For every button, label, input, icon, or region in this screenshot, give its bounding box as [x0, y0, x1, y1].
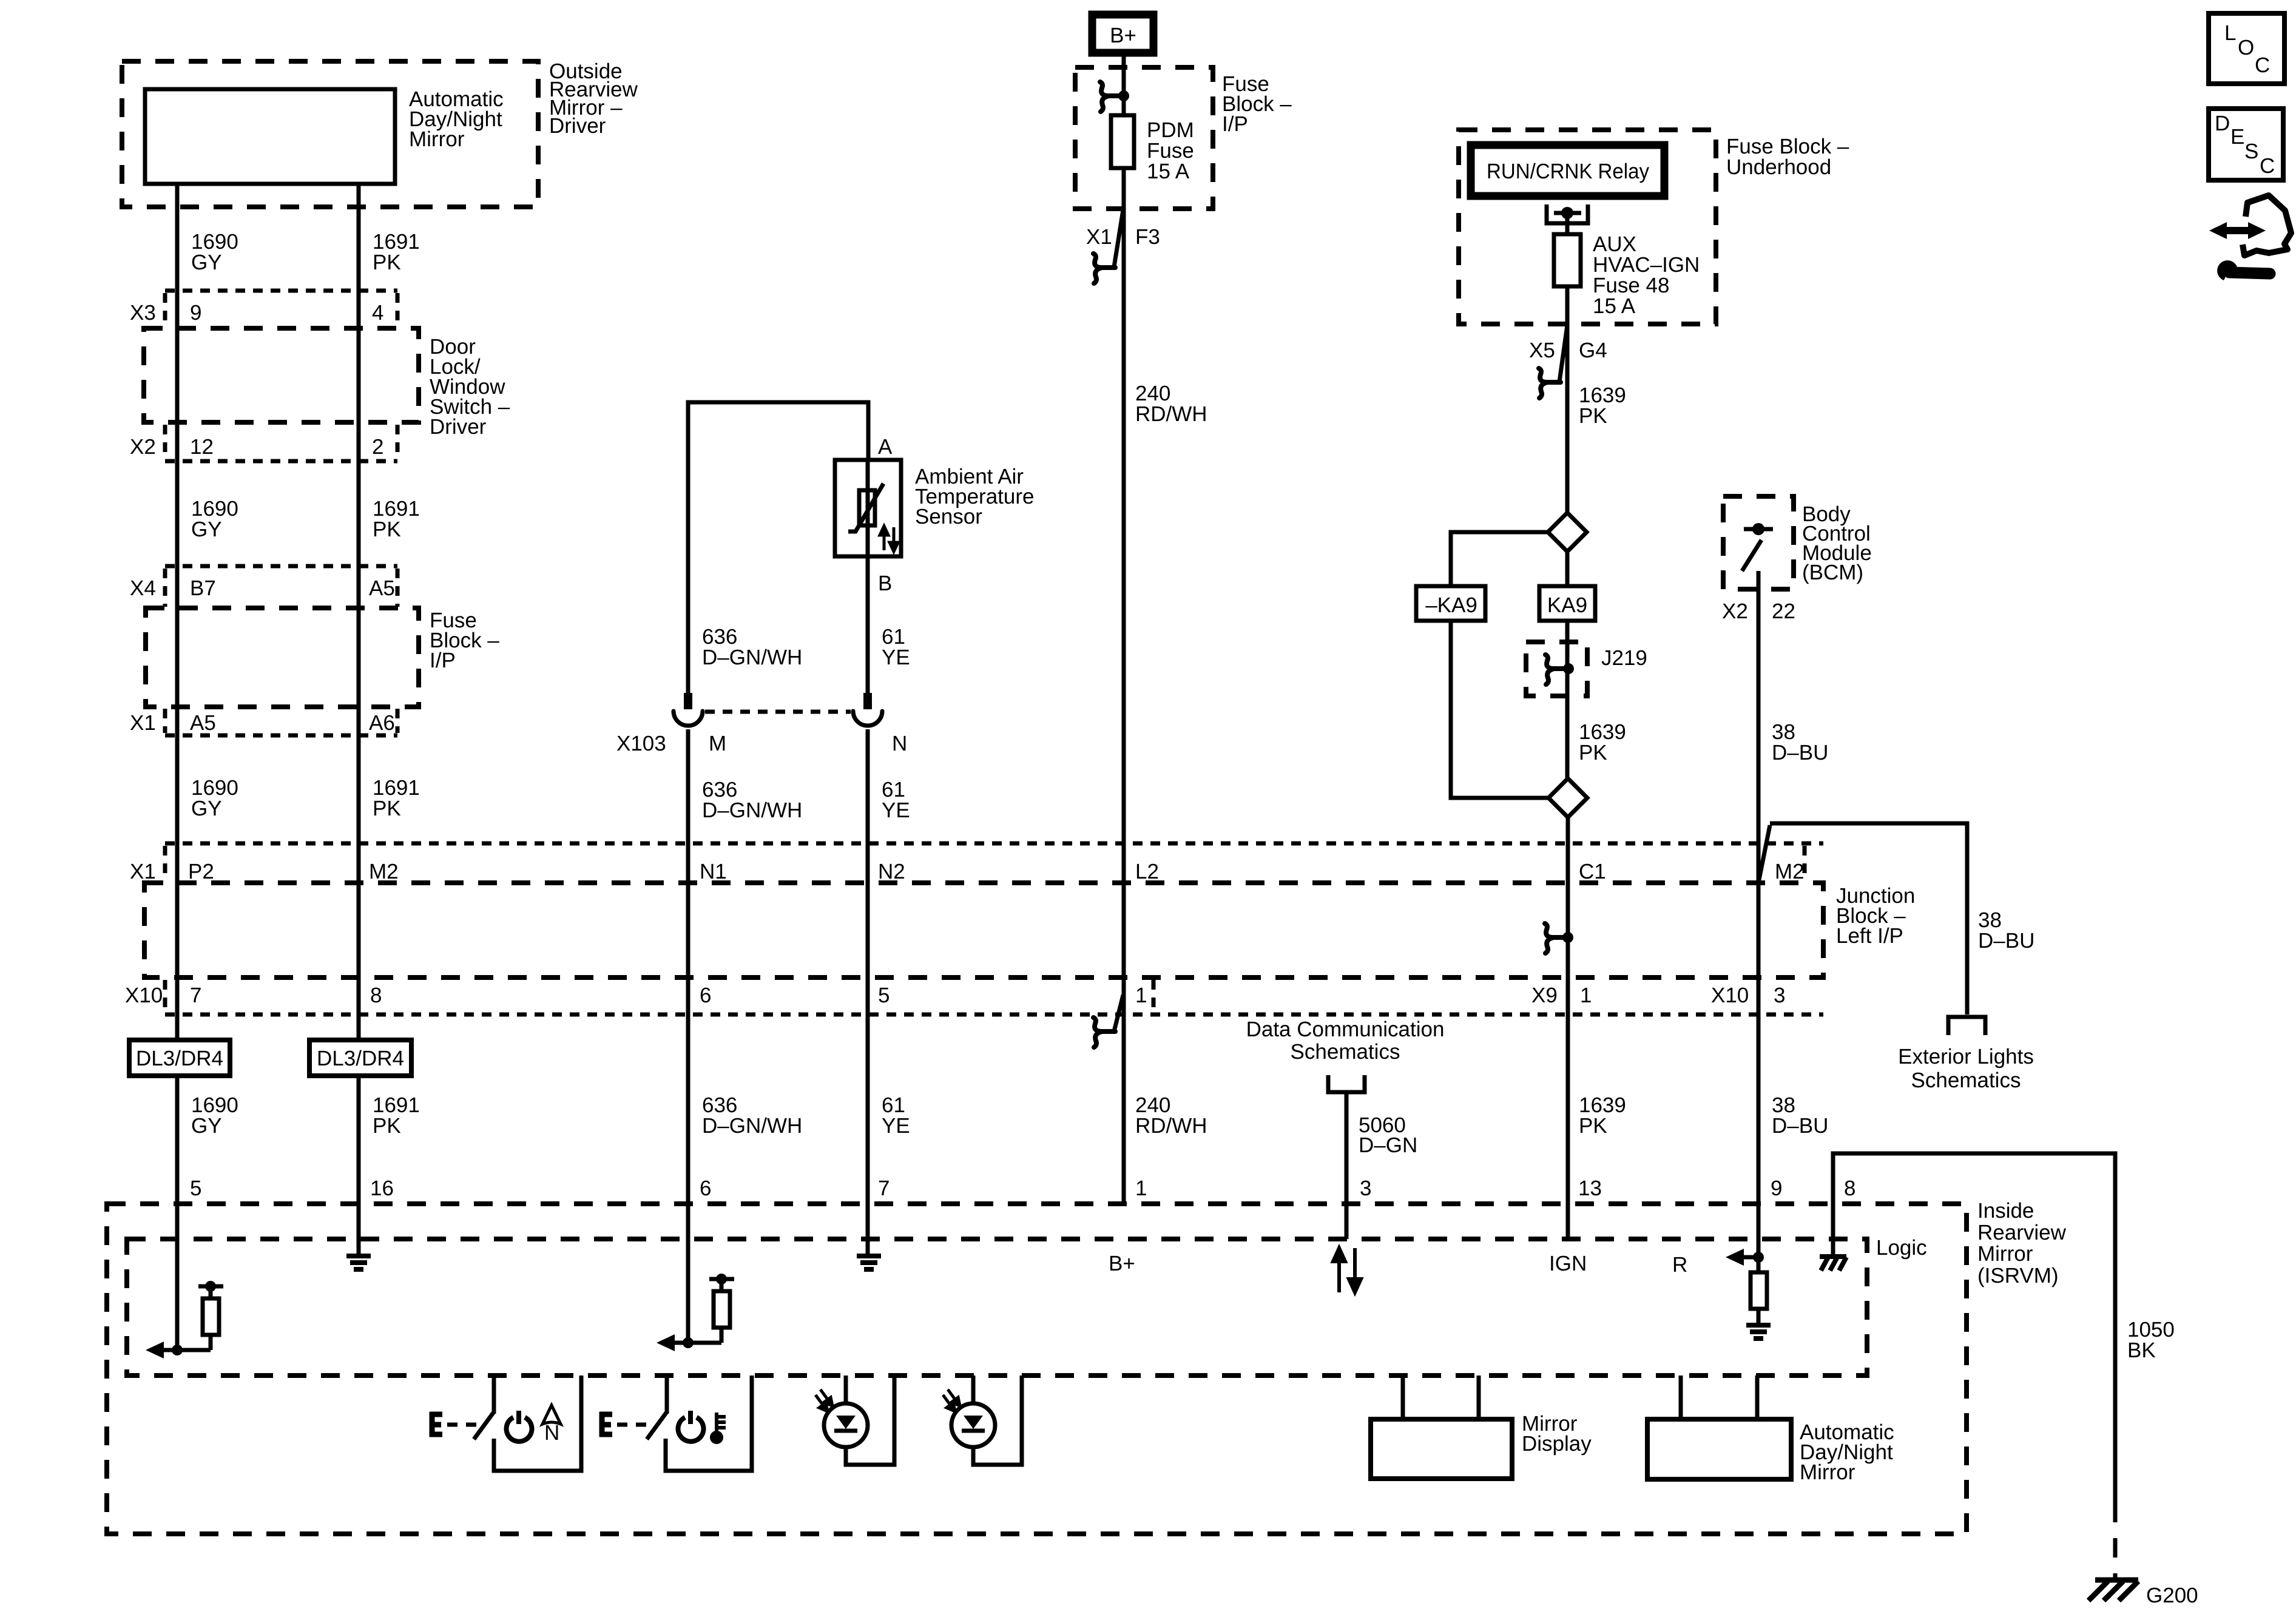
svg-text:C1: C1 [1579, 860, 1606, 883]
svg-text:4: 4 [372, 301, 383, 325]
wire 61 YE from sensor to X103 [866, 556, 870, 695]
svg-text:Mirror: Mirror [1977, 1242, 2033, 1266]
svg-text:M2: M2 [1775, 860, 1805, 883]
connector M2 tick (junction row right) [1803, 846, 1807, 881]
svg-text:15 A: 15 A [1147, 160, 1190, 183]
mirror display box [1371, 1419, 1512, 1479]
svg-text:DL3/DR4: DL3/DR4 [317, 1047, 404, 1070]
junction row lower dotted connector line [165, 1013, 1823, 1017]
switch 2 blade [647, 1412, 667, 1439]
svg-text:N2: N2 [878, 860, 905, 883]
connector X4 tick right [396, 569, 400, 607]
connector X1 tick left [163, 709, 167, 733]
switch 2 thermometer icon [712, 1413, 726, 1442]
svg-text:Driver: Driver [549, 114, 606, 138]
svg-text:Driver: Driver [430, 415, 487, 439]
svg-text:Inside: Inside [1977, 1199, 2034, 1223]
svg-text:X1: X1 [1086, 225, 1112, 249]
svg-text:BK: BK [2127, 1338, 2156, 1362]
svg-text:7: 7 [878, 1176, 890, 1200]
svg-text:PK: PK [373, 797, 401, 820]
door lock/window switch - driver (dashed box) [144, 328, 419, 422]
svg-text:M2: M2 [369, 860, 399, 883]
data communication schematics off-page link [1328, 1075, 1365, 1092]
sensor up/down arrows [880, 526, 898, 552]
svg-text:B: B [878, 572, 892, 595]
svg-text:I/P: I/P [430, 649, 456, 672]
J219 terminal hook with dot [1545, 655, 1567, 684]
svg-text:X1: X1 [130, 860, 156, 883]
svg-text:D–GN/WH: D–GN/WH [702, 798, 802, 822]
splice pack DL3/DR4 left box [129, 1040, 230, 1076]
wire relay to fuse [1565, 213, 1570, 234]
BCM switch contact bar with dot [1744, 527, 1773, 532]
svg-text:L2: L2 [1135, 860, 1159, 883]
service icon: double arrow [2209, 222, 2266, 239]
svg-text:1: 1 [1580, 984, 1592, 1007]
connector X103 male pin right [863, 693, 872, 709]
connector X5/G4 pass-through diagonal [1559, 325, 1567, 382]
svg-text:D–GN/WH: D–GN/WH [702, 646, 802, 669]
fuse AUX HVAC-IGN element [1554, 234, 1581, 286]
connector X103 female cup right [853, 711, 882, 726]
svg-text:E: E [2230, 125, 2244, 149]
body control module (BCM) dashed box [1723, 496, 1794, 589]
svg-text:IGN: IGN [1549, 1252, 1587, 1275]
photosensor LED 2 [971, 1376, 976, 1405]
logic dashed box [127, 1239, 1867, 1376]
svg-text:GY: GY [191, 797, 222, 820]
resistor (GY input) [203, 1298, 219, 1335]
svg-text:15 A: 15 A [1593, 294, 1636, 318]
connector X1/F3 pass-through diagonal [1114, 210, 1123, 267]
svg-text:N: N [892, 732, 907, 755]
switch 2 E terminal [599, 1412, 612, 1437]
RUN/CRNK Relay box [1471, 145, 1664, 196]
wire 1691 PK below DL3/DR4 [357, 1076, 361, 1254]
svg-text:(BCM): (BCM) [1802, 561, 1863, 584]
connector X103 female cup left [674, 711, 703, 726]
switch 1 blade [474, 1412, 494, 1439]
switch 2 power icon [678, 1411, 704, 1442]
svg-text:8: 8 [370, 984, 382, 1007]
mirror display stub wires [1401, 1376, 1405, 1419]
thermistor rectangle [859, 490, 875, 525]
wire through KA9 [1565, 552, 1570, 586]
B+ power box [1092, 15, 1153, 53]
svg-text:Schematics: Schematics [1911, 1068, 2021, 1092]
wire 1690 GY vertical (upper) [175, 184, 180, 1040]
connector 1 pass-through diagonal at junction row [1114, 995, 1123, 1031]
svg-text:C: C [2260, 154, 2275, 178]
svg-text:A5: A5 [190, 711, 216, 735]
svg-text:Exterior Lights: Exterior Lights [1898, 1045, 2034, 1068]
inside rearview mirror (ISRVM) dashed box [107, 1204, 1967, 1534]
svg-text:9: 9 [1771, 1176, 1782, 1200]
svg-text:M: M [709, 732, 726, 755]
resistor (R input) [1757, 1257, 1761, 1272]
svg-text:R: R [1672, 1253, 1687, 1277]
automatic day/night mirror box (ISRVM) [1647, 1419, 1791, 1479]
BCM switch blade [1742, 540, 1761, 571]
wire 38 D-BU [1757, 571, 1761, 1257]
svg-text:16: 16 [370, 1176, 394, 1200]
connector 1 terminal hook [1093, 1018, 1115, 1047]
svg-text:Underhood: Underhood [1726, 155, 1831, 179]
junction block - left I/P dashed box [144, 883, 1823, 977]
svg-text:GY: GY [191, 1114, 222, 1138]
svg-text:9: 9 [190, 301, 201, 325]
svg-text:2: 2 [372, 435, 383, 459]
svg-text:X10: X10 [125, 984, 163, 1007]
switch 1 cell outline [494, 1376, 581, 1471]
connector X2 tick left [163, 425, 167, 459]
data arrows up/down (5060) [1333, 1248, 1361, 1292]
connector X4 tick left [163, 569, 167, 607]
svg-text:X2: X2 [1722, 599, 1748, 623]
svg-text:J219: J219 [1601, 646, 1647, 670]
svg-text:X3: X3 [130, 301, 156, 325]
svg-text:KA9: KA9 [1547, 593, 1587, 617]
636 input: arrow and pull-up resistor [683, 1337, 694, 1348]
svg-text:DL3/DR4: DL3/DR4 [136, 1047, 223, 1070]
connector X2 row dotted line [165, 459, 397, 464]
svg-text:12: 12 [190, 435, 214, 459]
svg-text:A5: A5 [369, 576, 395, 600]
switch 2 dashed link [617, 1423, 649, 1427]
GY input: arrow and pull-up resistor [172, 1345, 183, 1355]
connector X10 tick left [163, 980, 167, 1012]
svg-text:PK: PK [373, 518, 401, 541]
wire 1050 BK loop (pin 8) [1833, 1153, 2115, 1503]
svg-text:D: D [2215, 112, 2230, 135]
splice diamond upper [1548, 513, 1587, 552]
fuse block - I/P (dashed box, left) [146, 608, 419, 707]
branch wire to -KA9 [1451, 532, 1548, 586]
wire 1050 BK dashed tail [2113, 1503, 2118, 1579]
connector X3 tick left [163, 293, 167, 328]
fuse block - I/P (dashed box, top) [1075, 67, 1213, 209]
connector X4 row dotted line [165, 564, 397, 569]
svg-text:Logic: Logic [1876, 1236, 1927, 1260]
switch 1 dashed link [447, 1423, 479, 1427]
svg-text:A: A [878, 435, 893, 459]
svg-text:D–BU: D–BU [1772, 1114, 1828, 1138]
svg-text:Rearview: Rearview [1977, 1221, 2067, 1244]
switch 1 E terminal [430, 1412, 442, 1437]
svg-text:L: L [2224, 21, 2236, 45]
svg-text:X9: X9 [1531, 984, 1558, 1007]
connector X1 tick right [396, 709, 400, 733]
wire 240 RD/WH vertical [1122, 209, 1126, 1204]
svg-text:3: 3 [1774, 984, 1785, 1007]
wire B+ to fuse [1122, 53, 1126, 115]
svg-text:6: 6 [700, 1176, 711, 1200]
branch wire to exterior lights [1770, 823, 1967, 1014]
connector X103 male pin left [684, 693, 692, 709]
connector X3 tick right [396, 293, 400, 328]
automatic day/night mirror (solid box) [145, 89, 395, 184]
bus tap hook with junction dot [1100, 82, 1122, 112]
svg-text:G200: G200 [2146, 1584, 2198, 1607]
connector X1 tick (junction row) [163, 846, 167, 881]
svg-text:RD/WH: RD/WH [1135, 402, 1207, 426]
relay contact box KA9 [1539, 586, 1595, 621]
svg-text:PK: PK [373, 1114, 401, 1138]
wire 5060 D-GN [1345, 1092, 1349, 1239]
svg-text:C: C [2255, 53, 2270, 77]
svg-text:G4: G4 [1579, 339, 1607, 362]
svg-text:RUN/CRNK Relay: RUN/CRNK Relay [1487, 160, 1649, 183]
connector X1/F3 terminal hook [1093, 254, 1115, 283]
X9 terminal hook with dot (junction block) [1545, 923, 1567, 953]
svg-text:5: 5 [878, 984, 890, 1007]
svg-text:D–BU: D–BU [1978, 929, 2034, 953]
ground G200 [2088, 1580, 2138, 1601]
wire 61 below X103 [866, 729, 870, 1254]
svg-text:I/P: I/P [1222, 112, 1248, 136]
chassis ground (pin 8) [1820, 1257, 1846, 1271]
svg-text:RD/WH: RD/WH [1135, 1114, 1207, 1138]
svg-text:B7: B7 [190, 576, 216, 600]
svg-text:X4: X4 [130, 576, 156, 600]
switch 2 cell outline [666, 1376, 752, 1471]
svg-text:P2: P2 [188, 860, 214, 883]
svg-text:D–GN: D–GN [1359, 1133, 1417, 1157]
svg-text:3: 3 [1360, 1176, 1371, 1200]
svg-text:8: 8 [1844, 1176, 1855, 1200]
svg-text:PK: PK [1579, 1114, 1607, 1138]
ground symbol (1691 PK) [346, 1256, 371, 1269]
splice diamond lower [1548, 778, 1587, 817]
svg-text:N: N [544, 1421, 559, 1445]
svg-text:X1: X1 [130, 711, 156, 735]
R input arrow with dot [1753, 1252, 1764, 1263]
ground symbol (61 YE) [857, 1256, 881, 1269]
svg-text:X5: X5 [1529, 339, 1555, 362]
photosensor LED 1 [844, 1376, 848, 1405]
connector 1 tick [1152, 980, 1156, 1012]
branch diagonal at M2 [1759, 825, 1770, 880]
outside rearview mirror - driver (dashed module box) [122, 61, 538, 207]
svg-text:X10: X10 [1711, 984, 1749, 1007]
wire KA9 to J219 [1565, 621, 1570, 778]
switch 1 power icon [507, 1411, 532, 1442]
fuse PDM 15A element [1111, 115, 1134, 168]
connector X3 row dotted line [165, 289, 397, 293]
switch 1 night (triangle N) icon [542, 1405, 561, 1424]
LED 2 light arrows [943, 1389, 960, 1411]
svg-text:GY: GY [191, 251, 222, 274]
svg-text:PK: PK [1579, 404, 1607, 428]
sensor internal wire [866, 460, 870, 556]
branch wire -KA9 to lower splice [1451, 621, 1548, 798]
junction row upper dotted connector line [165, 842, 1823, 846]
svg-text:1: 1 [1135, 984, 1147, 1007]
svg-text:Mirror: Mirror [409, 127, 465, 151]
svg-text:O: O [2238, 36, 2254, 59]
svg-text:X2: X2 [130, 435, 156, 459]
connector X5/G4 terminal hook [1539, 368, 1561, 398]
svg-text:B+: B+ [1110, 24, 1136, 47]
svg-text:X103: X103 [616, 732, 666, 755]
svg-text:Schematics: Schematics [1291, 1040, 1400, 1064]
svg-text:1: 1 [1135, 1176, 1147, 1200]
wire top horizontal 636-to-sensor [688, 402, 868, 695]
svg-text:5: 5 [190, 1176, 201, 1200]
svg-text:YE: YE [882, 1114, 910, 1138]
svg-text:B+: B+ [1109, 1252, 1135, 1275]
fuse block - underhood (dashed box) [1459, 130, 1716, 324]
LOC legend box [2209, 13, 2284, 84]
svg-text:A6: A6 [369, 711, 395, 735]
svg-text:–KA9: –KA9 [1425, 593, 1477, 617]
ADN mirror stub wires [1679, 1376, 1683, 1419]
wire 1639 PK to ISRVM [1566, 817, 1570, 1239]
relay terminal cup [1547, 204, 1588, 223]
resistor (636 input) [714, 1291, 730, 1328]
splice pack DL3/DR4 right box [309, 1040, 411, 1076]
DESC legend box [2209, 109, 2283, 180]
wire 1691 PK vertical (upper) [357, 184, 361, 1040]
wire 1690 GY below DL3/DR4 [175, 1076, 180, 1350]
connector X103 dashed link [705, 710, 851, 714]
connector X1 row dotted line [165, 734, 397, 738]
svg-text:Sensor: Sensor [915, 505, 982, 528]
svg-text:D–GN/WH: D–GN/WH [702, 1114, 802, 1138]
connector X2 tick right [396, 425, 400, 459]
switch 2 (power/temperature) pole wire [665, 1376, 669, 1414]
svg-text:Data Communication: Data Communication [1246, 1018, 1445, 1041]
service icon: wrench [2217, 260, 2237, 280]
thermistor diagonal with foot [848, 484, 883, 532]
svg-text:D–BU: D–BU [1772, 741, 1828, 765]
switch 1 (power/night) pole wire [492, 1376, 496, 1414]
ground symbol (R input) [1746, 1325, 1771, 1338]
svg-text:Mirror: Mirror [1800, 1460, 1855, 1484]
svg-text:YE: YE [882, 798, 910, 822]
wire 636 below X103 [686, 729, 690, 1343]
svg-text:6: 6 [700, 984, 711, 1007]
svg-text:Display: Display [1522, 1432, 1592, 1456]
wire 1639 PK upper [1565, 324, 1570, 513]
connector J219 dashed box [1526, 642, 1587, 696]
LED 1 light arrows [815, 1389, 832, 1411]
svg-text:13: 13 [1578, 1176, 1602, 1200]
svg-text:S: S [2244, 140, 2258, 163]
svg-text:PK: PK [1579, 741, 1607, 765]
svg-text:GY: GY [191, 518, 222, 541]
relay contact box -KA9 [1416, 586, 1485, 621]
ambient air temperature sensor box [835, 460, 901, 556]
svg-text:N1: N1 [700, 860, 727, 883]
svg-text:F3: F3 [1135, 225, 1160, 249]
svg-text:(ISRVM): (ISRVM) [1977, 1264, 2059, 1288]
svg-text:YE: YE [882, 646, 910, 669]
svg-text:PK: PK [373, 251, 401, 274]
svg-text:7: 7 [190, 984, 201, 1007]
exterior lights off-page link [1948, 1017, 1985, 1035]
service icon: bent arrow outline [2243, 195, 2291, 255]
svg-text:22: 22 [1772, 599, 1795, 623]
svg-text:Left I/P: Left I/P [1836, 924, 1903, 948]
relay output terminal bar with dot [1554, 211, 1581, 215]
